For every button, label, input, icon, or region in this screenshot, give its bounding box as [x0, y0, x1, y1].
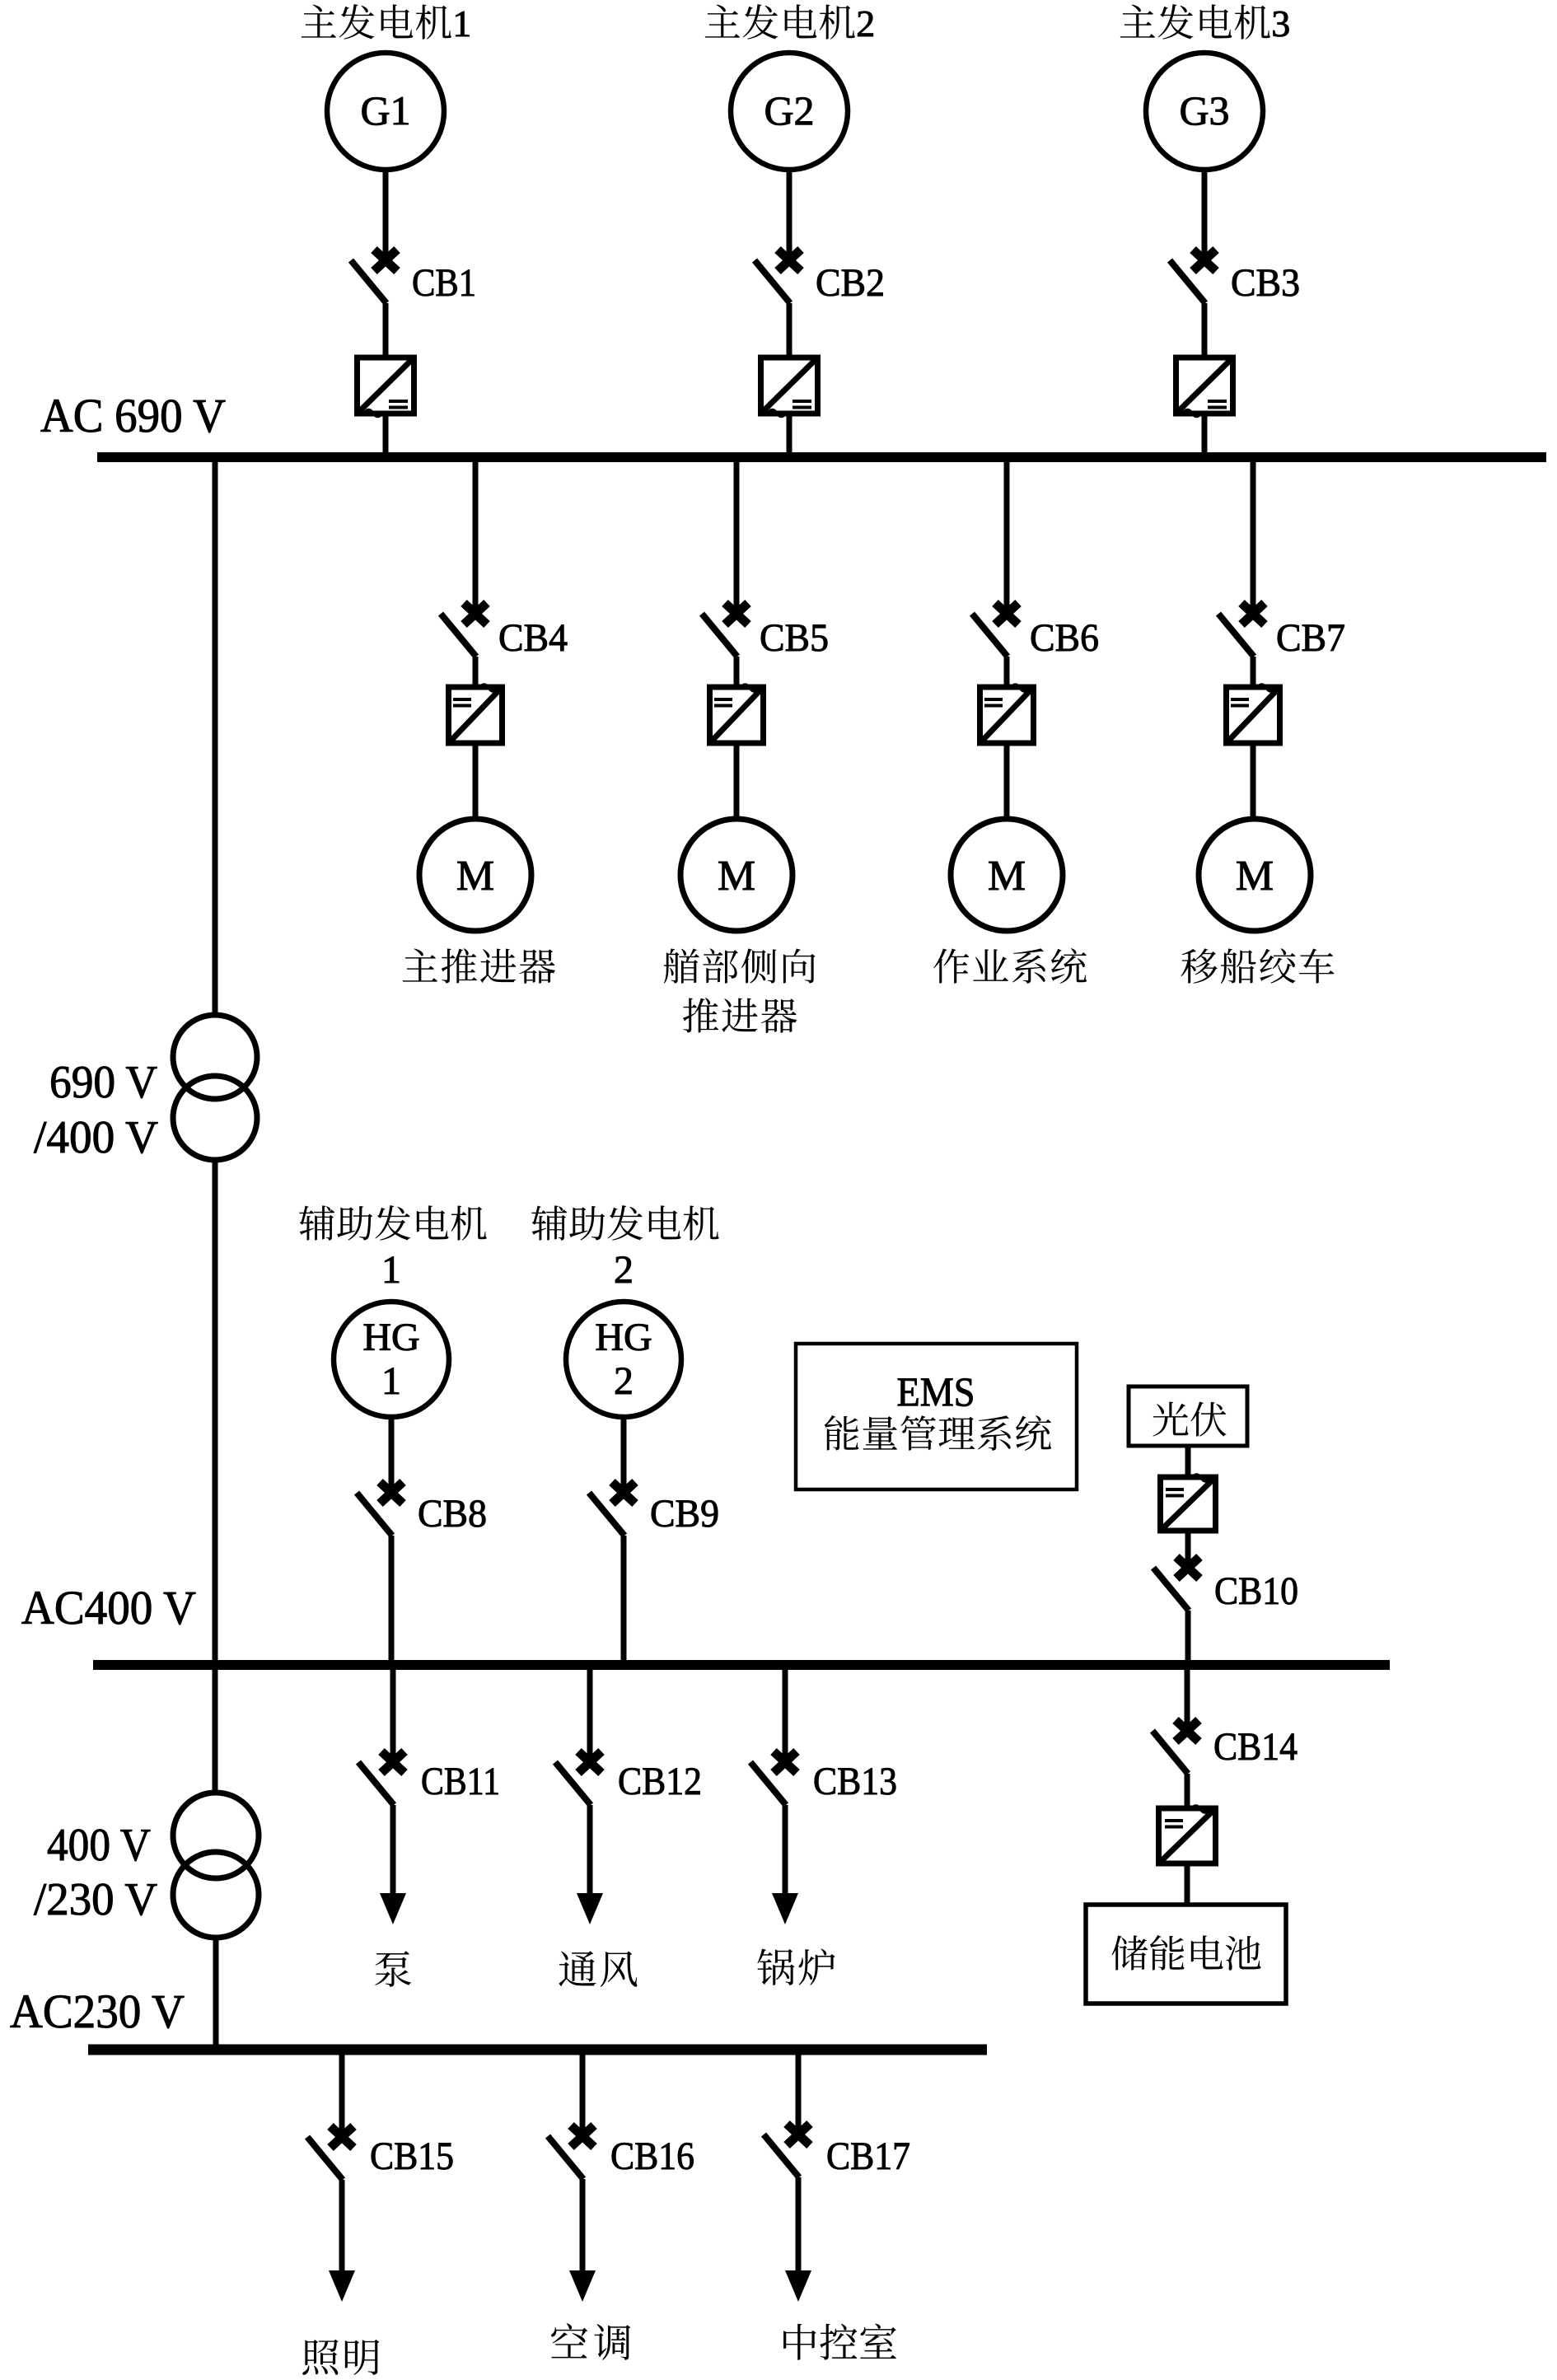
svg-text:1: 1 — [452, 2, 471, 44]
wire 230V bus to CB17 — [796, 2055, 802, 2130]
svg-text:CB12: CB12 — [618, 1760, 702, 1803]
bus AC230 V — [88, 2045, 987, 2055]
label 能量管理系统 — [825, 1415, 1051, 1451]
label 辅助发电机2 line1 — [531, 1205, 718, 1241]
svg-text:HG: HG — [362, 1316, 419, 1359]
wire CB2 to converter — [787, 303, 793, 360]
circuit breaker CB3 — [1170, 250, 1300, 305]
load arrow 泵 — [380, 1893, 406, 1924]
converter U10 (DC/AC) — [1161, 1475, 1216, 1531]
converter U5 (DC/AC) — [710, 685, 764, 743]
transformer T2 400V/230V — [173, 1793, 259, 1938]
circuit breaker CB11 — [358, 1751, 500, 1805]
svg-text:M: M — [718, 853, 755, 900]
wire CB3 to converter — [1202, 303, 1208, 360]
converter U4 (DC/AC) — [449, 685, 503, 743]
wire G1 to CB1 — [383, 170, 389, 255]
motor M4 — [1199, 819, 1311, 931]
svg-text:1: 1 — [381, 1359, 401, 1403]
wire 230V bus to CB16 — [580, 2055, 586, 2131]
generator HG1 — [334, 1302, 449, 1417]
wire converter U4 to motor — [473, 743, 479, 821]
svg-text:CB11: CB11 — [421, 1760, 500, 1803]
wire CB12 to load arrow — [587, 1805, 593, 1896]
wire CB11 to load arrow — [390, 1805, 396, 1896]
svg-text:G2: G2 — [764, 87, 814, 133]
label 照明 — [302, 2340, 379, 2375]
wire converter U3 to 690V bus — [1202, 414, 1208, 453]
svg-text:CB14: CB14 — [1213, 1725, 1297, 1769]
svg-text:CB9: CB9 — [650, 1492, 719, 1536]
motor M1 — [419, 819, 531, 931]
svg-text:/400 V: /400 V — [34, 1112, 158, 1163]
wire CB8 to 400V bus — [389, 1536, 395, 1660]
circuit breaker CB4 — [441, 603, 568, 660]
wire 690V bus to T1 — [213, 462, 218, 1017]
wire 690V bus to CB5 — [734, 462, 740, 609]
svg-text:2: 2 — [614, 1248, 634, 1292]
wire 400V bus to CB11 — [390, 1670, 396, 1757]
wire CB7 to converter — [1251, 657, 1256, 690]
wire 400V bus to CB14 — [1185, 1670, 1190, 1726]
bus AC 690 V — [97, 452, 1546, 462]
wire T2 to 230V bus — [213, 1935, 219, 2045]
label 艏部侧向 — [664, 948, 816, 983]
circuit breaker CB9 — [589, 1482, 719, 1536]
label 泵 — [375, 1951, 411, 1987]
wire 400V bus to CB12 — [587, 1670, 593, 1757]
svg-text:CB1: CB1 — [412, 261, 476, 305]
label 空调 — [551, 2323, 630, 2360]
wire CB9 to 400V bus — [621, 1536, 627, 1660]
svg-text:3: 3 — [1271, 2, 1290, 44]
svg-text:CB15: CB15 — [370, 2135, 454, 2178]
label 主发电机3 — [1120, 2, 1290, 44]
label 主发电机1 — [302, 2, 471, 44]
battery 储能电池 — [1086, 1905, 1286, 2004]
wire G2 to CB2 — [787, 170, 793, 255]
circuit breaker CB6 — [972, 603, 1099, 660]
wire CB10 to 400V bus — [1185, 1611, 1191, 1660]
load arrow 中控室 — [785, 2270, 811, 2302]
circuit breaker CB15 — [307, 2126, 454, 2180]
load arrow 通风 — [577, 1893, 603, 1924]
wire CB17 to load arrow — [796, 2177, 802, 2272]
label 推进器 — [683, 998, 797, 1033]
svg-text:M: M — [988, 853, 1026, 900]
wire PV box to converter — [1185, 1446, 1191, 1477]
wire HG2 to CB9 — [621, 1417, 627, 1488]
wire 400V bus to CB13 — [783, 1670, 788, 1757]
svg-text:EMS: EMS — [897, 1368, 975, 1414]
wire CB16 to load arrow — [580, 2179, 586, 2272]
label 移船绞车 — [1181, 948, 1335, 984]
generator HG2 — [566, 1302, 681, 1417]
wire converter U14 to battery — [1185, 1863, 1190, 1906]
PV box 光伏 — [1129, 1386, 1247, 1446]
svg-text:M: M — [456, 853, 494, 900]
svg-text:CB2: CB2 — [816, 261, 885, 305]
wire CB14 to converter — [1185, 1774, 1190, 1810]
motor M3 — [951, 819, 1063, 931]
svg-text:690 V: 690 V — [49, 1057, 157, 1108]
motor M2 — [680, 819, 793, 931]
circuit breaker CB12 — [555, 1751, 702, 1805]
svg-text:CB3: CB3 — [1231, 261, 1300, 305]
svg-text:400 V: 400 V — [47, 1820, 151, 1871]
wire CB5 to converter — [734, 657, 740, 690]
generator G1 — [327, 53, 444, 170]
svg-text:2: 2 — [856, 2, 875, 44]
label 主推进器 — [403, 948, 555, 984]
svg-text:CB6: CB6 — [1030, 616, 1099, 660]
circuit breaker CB5 — [702, 603, 829, 660]
converter U7 (DC/AC) — [1227, 685, 1280, 743]
label 光伏 — [1153, 1401, 1227, 1436]
svg-text:CB5: CB5 — [760, 616, 829, 660]
converter U6 (DC/AC) — [980, 685, 1034, 743]
generator G3 — [1146, 53, 1263, 170]
svg-text:CB16: CB16 — [610, 2135, 694, 2178]
circuit breaker CB8 — [357, 1482, 487, 1536]
svg-text:CB17: CB17 — [826, 2135, 910, 2178]
circuit breaker CB17 — [764, 2124, 910, 2178]
wire converter U5 to motor — [734, 743, 740, 821]
circuit breaker CB10 — [1153, 1557, 1298, 1613]
wire converter U7 to motor — [1251, 743, 1256, 821]
wire converter U2 to 690V bus — [787, 414, 793, 453]
svg-text:M: M — [1236, 853, 1274, 900]
converter U1 (AC/DC) — [358, 358, 414, 417]
svg-text:AC400 V: AC400 V — [21, 1581, 196, 1634]
wire converter U6 to motor — [1004, 743, 1010, 821]
label 作业系统 — [933, 948, 1087, 984]
converter U2 (AC/DC) — [761, 358, 818, 417]
load arrow 空调 — [569, 2270, 596, 2302]
circuit breaker CB2 — [755, 250, 885, 305]
svg-text:AC 690 V: AC 690 V — [40, 389, 226, 442]
wire 690V bus to CB4 — [473, 462, 479, 609]
circuit breaker CB14 — [1153, 1720, 1297, 1774]
svg-text:2: 2 — [614, 1359, 634, 1403]
wire CB13 to load arrow — [783, 1805, 788, 1896]
label 通风 — [559, 1951, 637, 1987]
load arrow 锅炉 — [772, 1893, 798, 1924]
wire converter U1 to 690V bus — [383, 414, 389, 453]
wire HG1 to CB8 — [389, 1417, 395, 1488]
wire 690V bus to CB7 — [1251, 462, 1256, 609]
transformer T1 690V/400V — [173, 1015, 257, 1160]
circuit breaker CB16 — [548, 2125, 694, 2179]
wire CB6 to converter — [1004, 657, 1010, 690]
bus AC400 V — [93, 1660, 1390, 1670]
circuit breaker CB7 — [1218, 603, 1345, 660]
wire T1 to 400V bus and on to T2 — [213, 1157, 218, 1793]
svg-text:CB13: CB13 — [813, 1760, 897, 1803]
svg-text:G3: G3 — [1179, 87, 1229, 133]
svg-text:G1: G1 — [360, 87, 410, 133]
wire G3 to CB3 — [1202, 170, 1208, 255]
wire CB4 to converter — [473, 657, 479, 690]
svg-text:1: 1 — [381, 1248, 401, 1292]
label 辅助发电机1 line1 — [299, 1205, 486, 1241]
svg-text:AC230 V: AC230 V — [10, 1985, 185, 2038]
svg-text:CB10: CB10 — [1214, 1569, 1298, 1613]
circuit breaker CB13 — [750, 1751, 897, 1805]
svg-text:CB8: CB8 — [418, 1492, 487, 1536]
label 中控室 — [783, 2324, 896, 2360]
EMS box — [796, 1344, 1077, 1489]
converter U14 (DC/AC) — [1159, 1806, 1216, 1863]
svg-text:/230 V: /230 V — [34, 1874, 157, 1925]
svg-text:CB4: CB4 — [498, 616, 568, 660]
label 主发电机2 — [705, 2, 875, 44]
svg-text:HG: HG — [595, 1316, 652, 1359]
wire CB15 to load arrow — [339, 2180, 345, 2272]
wire 690V bus to CB6 — [1004, 462, 1010, 609]
circuit breaker CB1 — [351, 250, 476, 305]
svg-text:CB7: CB7 — [1276, 616, 1345, 660]
load arrow 照明 — [329, 2270, 355, 2302]
generator G2 — [731, 53, 848, 170]
label 储能电池 — [1112, 1935, 1261, 1971]
wire 230V bus to CB15 — [339, 2055, 345, 2132]
wire CB1 to converter — [383, 303, 389, 360]
converter U3 (AC/DC) — [1176, 358, 1233, 417]
label 锅炉 — [757, 1948, 835, 1985]
wire converter U10 to CB10 — [1185, 1531, 1191, 1563]
